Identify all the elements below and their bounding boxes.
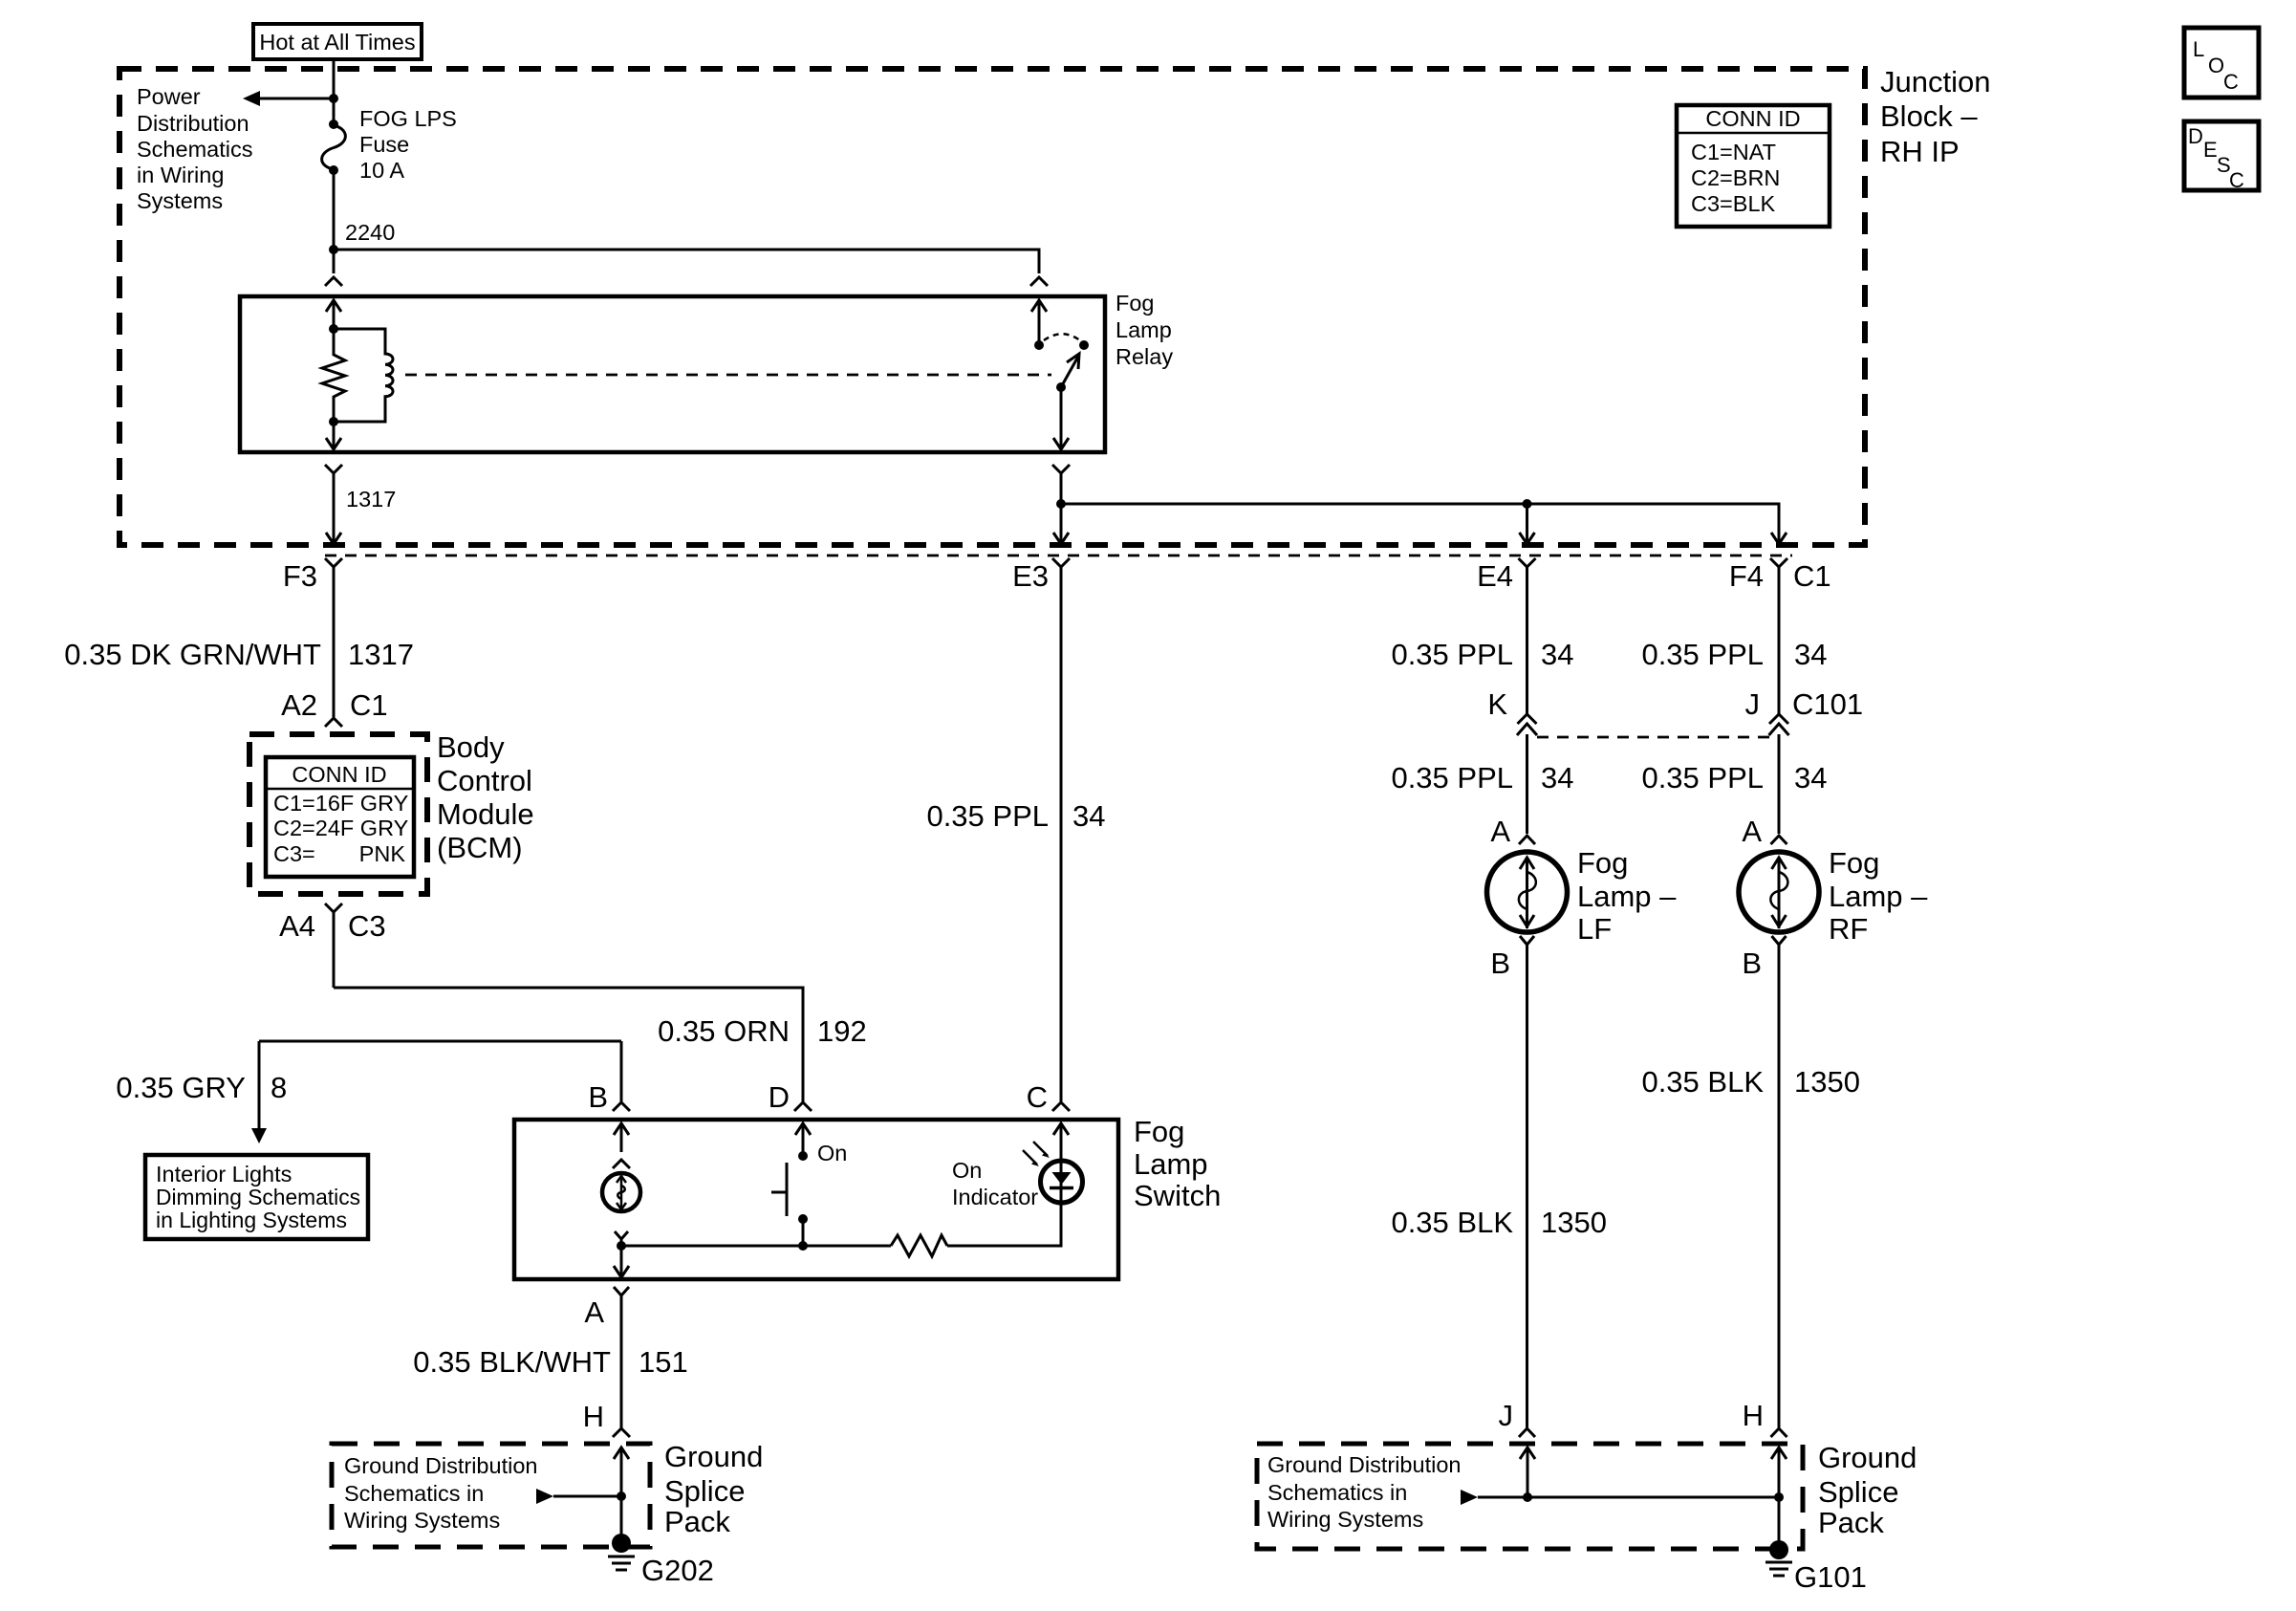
- svg-text:A: A: [1490, 815, 1510, 848]
- svg-text:0.35 GRY: 0.35 GRY: [116, 1071, 246, 1104]
- svg-text:On: On: [952, 1158, 982, 1183]
- svg-text:0.35 BLK/WHT: 0.35 BLK/WHT: [413, 1345, 611, 1379]
- svg-text:C1: C1: [350, 688, 388, 722]
- svg-text:C3=: C3=: [273, 841, 315, 866]
- svg-text:2240: 2240: [345, 220, 395, 245]
- svg-text:Schematics in: Schematics in: [1267, 1480, 1407, 1505]
- svg-text:Ground: Ground: [1818, 1441, 1917, 1474]
- svg-text:Wiring Systems: Wiring Systems: [344, 1508, 500, 1533]
- svg-text:F4: F4: [1729, 559, 1764, 593]
- svg-text:Distribution: Distribution: [137, 111, 249, 136]
- svg-text:0.35 ORN: 0.35 ORN: [658, 1014, 790, 1048]
- svg-text:H: H: [583, 1400, 604, 1433]
- svg-text:L: L: [2193, 37, 2204, 61]
- svg-text:C1: C1: [1793, 559, 1831, 593]
- svg-text:G101: G101: [1794, 1560, 1867, 1594]
- svg-text:34: 34: [1794, 761, 1827, 795]
- svg-text:0.35 PPL: 0.35 PPL: [1391, 638, 1513, 671]
- svg-text:Switch: Switch: [1134, 1179, 1221, 1212]
- svg-text:Splice: Splice: [664, 1474, 745, 1508]
- svg-text:A2: A2: [281, 688, 317, 722]
- svg-text:Relay: Relay: [1116, 344, 1173, 369]
- svg-text:C: C: [2223, 70, 2239, 94]
- svg-text:E3: E3: [1012, 559, 1049, 593]
- svg-text:in Lighting Systems: in Lighting Systems: [156, 1208, 347, 1232]
- svg-text:Lamp: Lamp: [1116, 317, 1172, 342]
- svg-text:1317: 1317: [348, 638, 414, 671]
- svg-text:H: H: [1743, 1399, 1764, 1432]
- svg-text:Splice: Splice: [1818, 1475, 1898, 1509]
- svg-text:34: 34: [1794, 638, 1827, 671]
- svg-text:A: A: [584, 1295, 604, 1329]
- svg-text:in Wiring: in Wiring: [137, 163, 224, 187]
- svg-text:A4: A4: [279, 909, 315, 943]
- svg-text:Pack: Pack: [664, 1505, 730, 1538]
- svg-text:C1=16F GRY: C1=16F GRY: [273, 791, 409, 816]
- svg-text:Power: Power: [137, 84, 201, 109]
- svg-text:E4: E4: [1477, 559, 1513, 593]
- svg-text:Block –: Block –: [1880, 99, 1978, 133]
- svg-text:On: On: [817, 1141, 847, 1165]
- svg-text:Module: Module: [437, 797, 534, 831]
- svg-text:Hot at All Times: Hot at All Times: [259, 30, 415, 54]
- svg-text:1350: 1350: [1794, 1065, 1860, 1099]
- svg-text:C2=BRN: C2=BRN: [1691, 165, 1780, 190]
- svg-text:FOG LPS: FOG LPS: [359, 106, 457, 131]
- svg-text:B: B: [588, 1080, 608, 1114]
- svg-text:RH IP: RH IP: [1880, 135, 1960, 168]
- svg-text:Pack: Pack: [1818, 1506, 1884, 1539]
- svg-text:J: J: [1499, 1399, 1514, 1432]
- svg-text:Lamp: Lamp: [1134, 1147, 1208, 1181]
- svg-text:O: O: [2208, 54, 2224, 77]
- svg-text:Fog: Fog: [1829, 846, 1879, 880]
- svg-text:CONN ID: CONN ID: [1705, 106, 1800, 131]
- svg-text:Wiring Systems: Wiring Systems: [1267, 1507, 1423, 1532]
- svg-text:Control: Control: [437, 764, 532, 797]
- svg-text:RF: RF: [1829, 912, 1868, 946]
- svg-text:C3=BLK: C3=BLK: [1691, 191, 1776, 216]
- svg-text:(BCM): (BCM): [437, 831, 523, 864]
- svg-text:Fog: Fog: [1116, 291, 1155, 316]
- svg-text:0.35 BLK: 0.35 BLK: [1391, 1206, 1513, 1239]
- svg-text:Junction: Junction: [1880, 65, 1990, 98]
- svg-text:1350: 1350: [1541, 1206, 1607, 1239]
- svg-text:CONN ID: CONN ID: [292, 762, 386, 787]
- svg-text:8: 8: [271, 1071, 287, 1104]
- svg-text:Interior Lights: Interior Lights: [156, 1162, 292, 1186]
- svg-text:Fog: Fog: [1577, 846, 1628, 880]
- svg-text:LF: LF: [1577, 912, 1612, 946]
- svg-text:34: 34: [1541, 638, 1573, 671]
- svg-text:Schematics: Schematics: [137, 137, 252, 162]
- svg-text:B: B: [1742, 947, 1762, 980]
- svg-text:B: B: [1490, 947, 1510, 980]
- svg-text:Body: Body: [437, 730, 505, 764]
- svg-text:0.35 PPL: 0.35 PPL: [1391, 761, 1513, 795]
- svg-text:PNK: PNK: [359, 841, 406, 866]
- svg-text:Ground: Ground: [664, 1440, 763, 1473]
- svg-text:Indicator: Indicator: [952, 1185, 1038, 1209]
- svg-text:F3: F3: [283, 559, 317, 593]
- svg-text:Lamp –: Lamp –: [1829, 880, 1928, 913]
- svg-text:34: 34: [1072, 799, 1105, 833]
- svg-text:151: 151: [639, 1345, 688, 1379]
- svg-text:Ground Distribution: Ground Distribution: [344, 1453, 537, 1478]
- svg-text:C3: C3: [348, 909, 386, 943]
- svg-text:G202: G202: [641, 1554, 714, 1587]
- svg-text:Lamp –: Lamp –: [1577, 880, 1677, 913]
- svg-text:192: 192: [817, 1014, 867, 1048]
- svg-text:0.35 DK GRN/WHT: 0.35 DK GRN/WHT: [64, 638, 321, 671]
- svg-text:C: C: [2229, 168, 2244, 192]
- svg-text:K: K: [1487, 687, 1507, 721]
- svg-text:34: 34: [1541, 761, 1573, 795]
- svg-text:Fog: Fog: [1134, 1115, 1184, 1148]
- svg-text:J: J: [1745, 687, 1761, 721]
- svg-text:C: C: [1027, 1080, 1048, 1114]
- svg-text:A: A: [1742, 815, 1762, 848]
- svg-text:0.35 PPL: 0.35 PPL: [1641, 638, 1764, 671]
- svg-text:Fuse: Fuse: [359, 132, 409, 157]
- svg-text:0.35 BLK: 0.35 BLK: [1641, 1065, 1764, 1099]
- svg-text:10 A: 10 A: [359, 158, 404, 183]
- svg-text:D: D: [2188, 124, 2203, 148]
- svg-text:Dimming Schematics: Dimming Schematics: [156, 1185, 360, 1209]
- svg-text:1317: 1317: [346, 487, 396, 512]
- svg-text:D: D: [769, 1080, 790, 1114]
- svg-text:Systems: Systems: [137, 188, 223, 213]
- svg-text:0.35 PPL: 0.35 PPL: [1641, 761, 1764, 795]
- svg-text:C101: C101: [1792, 687, 1863, 721]
- svg-text:Schematics in: Schematics in: [344, 1481, 484, 1506]
- svg-text:E: E: [2203, 138, 2218, 162]
- svg-text:C1=NAT: C1=NAT: [1691, 140, 1776, 164]
- svg-text:Ground Distribution: Ground Distribution: [1267, 1452, 1461, 1477]
- svg-text:C2=24F GRY: C2=24F GRY: [273, 816, 409, 840]
- svg-text:0.35 PPL: 0.35 PPL: [926, 799, 1049, 833]
